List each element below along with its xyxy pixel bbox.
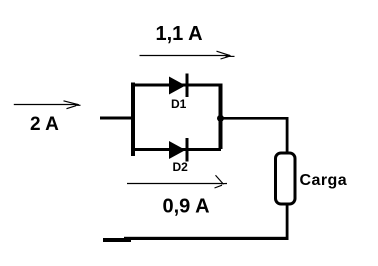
svg-text:Carga: Carga — [300, 172, 348, 189]
wire: left junction bar — [131, 83, 135, 157]
source current arrow for 2 A — [14, 101, 81, 109]
svg-text:D2: D2 — [173, 160, 189, 174]
svg-text:2 A: 2 A — [30, 114, 59, 135]
wire: bottom return — [124, 237, 289, 240]
diode D1 — [169, 74, 189, 98]
load (Carga) rectangle — [276, 153, 296, 204]
svg-text:1,1 A: 1,1 A — [156, 23, 203, 45]
svg-text:0,9 A: 0,9 A — [163, 196, 210, 218]
wire: input from source — [100, 117, 133, 120]
wire: bottom return left overlap segment — [103, 238, 131, 242]
wire: down to load top — [286, 117, 289, 153]
current arrow for 1,1 A — [140, 51, 235, 59]
wire: bottom branch — [133, 148, 221, 151]
wire: top branch — [133, 84, 221, 87]
svg-text:D1: D1 — [171, 97, 187, 111]
diode D2 — [169, 138, 189, 162]
current arrow for 0,9 A — [127, 175, 227, 188]
wire: output to load (horizontal) — [221, 117, 289, 120]
node: output junction dot — [217, 115, 224, 122]
wire: load bottom down — [286, 206, 289, 240]
wire: right junction bar — [219, 84, 223, 150]
